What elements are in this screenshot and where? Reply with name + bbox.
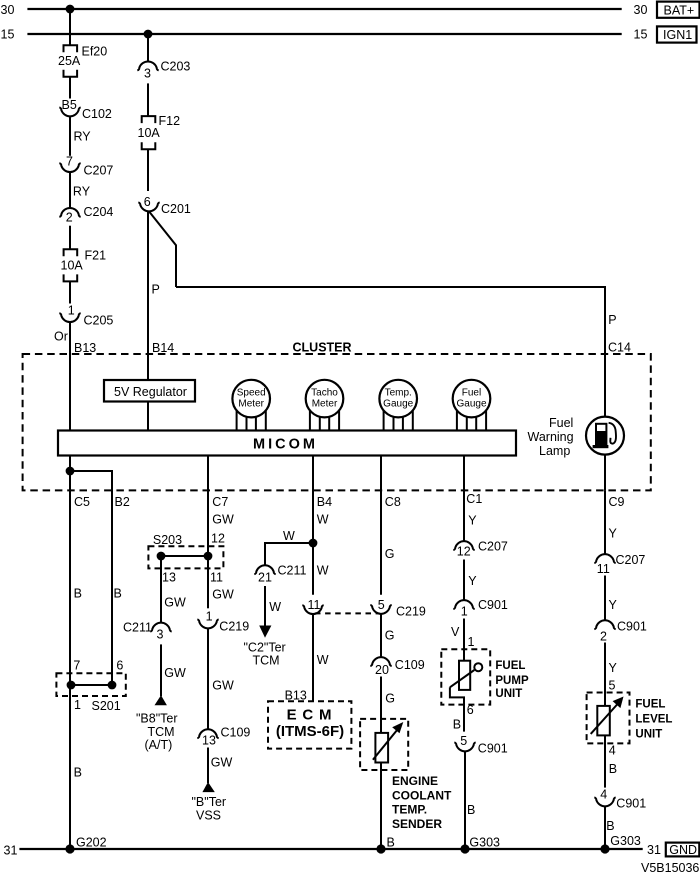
svg-text:G: G xyxy=(385,629,395,643)
svg-text:C901: C901 xyxy=(616,797,646,811)
svg-text:4: 4 xyxy=(609,744,616,758)
svg-text:C207: C207 xyxy=(84,164,114,178)
svg-text:B: B xyxy=(453,717,461,731)
connector C204 pin 2 xyxy=(59,208,80,217)
svg-text:15: 15 xyxy=(634,28,648,42)
svg-text:VSS: VSS xyxy=(196,809,221,823)
svg-text:PUMP: PUMP xyxy=(495,675,529,687)
svg-text:G202: G202 xyxy=(76,835,107,849)
svg-text:1: 1 xyxy=(74,698,81,712)
connector C219 pin 11 xyxy=(302,605,323,614)
svg-text:6: 6 xyxy=(467,703,474,717)
svg-text:Y: Y xyxy=(609,661,618,675)
svg-text:Or: Or xyxy=(54,330,68,344)
wire lamp to cluster edge C9 xyxy=(604,455,606,491)
wire branch to C211 pin 21, colour W xyxy=(265,543,313,565)
svg-text:C201: C201 xyxy=(161,202,191,216)
svg-text:31: 31 xyxy=(4,844,18,858)
wire C5 down to S201, colour B xyxy=(69,471,71,685)
splice S203 dashed box xyxy=(148,546,223,568)
svg-text:E C M: E C M xyxy=(287,707,333,724)
svg-text:GW: GW xyxy=(164,596,186,610)
fuel gauge xyxy=(453,380,491,418)
wire MICOM pin C5 xyxy=(69,456,71,472)
wire bus15 to connector C203 xyxy=(147,34,149,61)
svg-text:10A: 10A xyxy=(138,126,161,140)
svg-text:GW: GW xyxy=(211,756,233,770)
svg-text:W: W xyxy=(317,563,329,577)
fuel pump wiper to pin 6 wire xyxy=(450,687,464,731)
svg-text:V5B15036: V5B15036 xyxy=(641,861,699,875)
svg-text:6: 6 xyxy=(144,195,151,209)
svg-text:1: 1 xyxy=(468,635,475,649)
wire MICOM pin B4, colour W xyxy=(312,456,314,595)
svg-text:C901: C901 xyxy=(478,742,508,756)
svg-text:G: G xyxy=(385,547,395,561)
connector C207 pin 7 xyxy=(59,163,80,172)
connector C102 pin B5 xyxy=(59,108,80,117)
svg-text:11: 11 xyxy=(308,598,321,612)
fuse F12 10A xyxy=(142,116,156,123)
junction dot sender ground xyxy=(376,844,385,853)
connector C219 pin 1 xyxy=(197,620,218,629)
wire C901-2 to fuel level unit pin 5, colour Y xyxy=(604,643,606,706)
ground G202 xyxy=(65,844,74,853)
svg-text:B: B xyxy=(74,587,82,601)
svg-text:Y: Y xyxy=(609,598,618,612)
wire C219 to C109, colour GW xyxy=(207,628,209,729)
wire MICOM pin C1, colour Y xyxy=(463,456,465,542)
svg-text:12: 12 xyxy=(211,532,225,546)
ECM dashed box U3 xyxy=(268,701,351,748)
svg-text:30: 30 xyxy=(1,3,15,17)
connector C219 pin 5 xyxy=(370,605,391,614)
node BAT+ box xyxy=(657,2,700,18)
connector C201 pin 6 xyxy=(138,203,159,212)
wire C211 to B8 terminal, colour GW xyxy=(160,644,162,696)
svg-text:B4: B4 xyxy=(317,495,332,509)
connector C901 pin 2 xyxy=(594,620,615,629)
svg-text:B: B xyxy=(609,762,617,776)
svg-text:6: 6 xyxy=(116,659,123,673)
svg-text:15: 15 xyxy=(1,27,15,41)
connector C207 pin 12 xyxy=(453,541,474,550)
wire C219-5 to C109-20, colour G xyxy=(380,614,382,657)
svg-text:G303: G303 xyxy=(469,835,500,849)
wire feed to C14, colour P xyxy=(176,287,605,417)
svg-text:GND: GND xyxy=(669,843,697,857)
svg-text:Y: Y xyxy=(468,574,477,588)
speed meter gauge xyxy=(232,380,270,418)
wire C211-21 to C2 terminal, colour W xyxy=(264,586,266,626)
svg-text:5: 5 xyxy=(609,679,616,693)
svg-text:Gauge: Gauge xyxy=(456,399,486,410)
svg-text:COOLANT: COOLANT xyxy=(392,789,452,803)
svg-text:25A: 25A xyxy=(58,54,81,68)
svg-text:B: B xyxy=(387,835,395,849)
svg-text:IGN1: IGN1 xyxy=(663,28,692,42)
svg-text:C207: C207 xyxy=(478,539,508,553)
svg-text:S203: S203 xyxy=(153,533,182,547)
svg-text:RY: RY xyxy=(74,129,92,143)
svg-text:TCM: TCM xyxy=(253,653,280,667)
wire S203 to C219, colour GW xyxy=(207,556,209,608)
svg-text:Y: Y xyxy=(609,526,618,540)
svg-text:UNIT: UNIT xyxy=(635,728,662,740)
wire sender to bus 31, colour B xyxy=(380,763,382,850)
svg-text:C7: C7 xyxy=(212,495,228,509)
svg-text:ENGINE: ENGINE xyxy=(392,774,438,788)
splice S201 dashed box xyxy=(56,673,125,696)
wire bus30 to fuse Ef20 xyxy=(69,9,71,45)
svg-text:FUEL: FUEL xyxy=(495,660,525,672)
svg-text:30: 30 xyxy=(634,3,648,17)
terminal arrow C2 TCM xyxy=(259,626,271,638)
svg-text:UNIT: UNIT xyxy=(495,688,522,700)
svg-text:B: B xyxy=(606,819,614,833)
svg-text:4: 4 xyxy=(600,787,607,801)
svg-text:P: P xyxy=(608,313,616,327)
svg-text:C219: C219 xyxy=(396,605,426,619)
wire fuse Ef20 to connector C102 xyxy=(69,77,71,99)
svg-text:Gauge: Gauge xyxy=(383,399,413,410)
svg-text:C211: C211 xyxy=(123,621,152,635)
5V Regulator box U1 xyxy=(104,380,195,402)
wire branch to B2 xyxy=(70,471,112,685)
connector C205 pin 1 xyxy=(59,313,80,322)
svg-text:C207: C207 xyxy=(616,553,646,567)
wire C219-11 to ECM pin B13, colour W xyxy=(312,614,314,701)
junction dot B4 branch xyxy=(309,539,318,548)
svg-text:LEVEL: LEVEL xyxy=(635,714,672,726)
svg-text:B14: B14 xyxy=(152,341,174,355)
node IGN1 box xyxy=(657,26,697,42)
svg-text:31: 31 xyxy=(647,843,661,857)
wire diagonal C201 branch xyxy=(149,211,176,287)
svg-text:Speed: Speed xyxy=(237,388,266,399)
svg-text:C109: C109 xyxy=(221,726,251,740)
svg-text:7: 7 xyxy=(66,155,73,169)
svg-text:5: 5 xyxy=(378,598,385,612)
svg-text:G: G xyxy=(385,692,395,706)
svg-text:Ef20: Ef20 xyxy=(82,44,108,58)
fuel pump unit dashed box xyxy=(441,649,490,704)
svg-text:B2: B2 xyxy=(115,495,130,509)
splice S203 dot left xyxy=(157,552,166,561)
fuel warning lamp L1 xyxy=(586,417,624,455)
svg-text:RY: RY xyxy=(73,185,91,199)
ground dot G303 xyxy=(460,844,469,853)
svg-text:GW: GW xyxy=(212,513,234,527)
svg-text:Lamp: Lamp xyxy=(539,444,570,458)
svg-text:TCM: TCM xyxy=(148,725,175,739)
bus 31 line xyxy=(19,848,642,850)
svg-text:13: 13 xyxy=(162,571,176,585)
splice S203 dot right xyxy=(204,552,213,561)
cluster dashed box xyxy=(23,354,651,490)
svg-text:B: B xyxy=(114,587,122,601)
svg-text:"B8"Ter: "B8"Ter xyxy=(136,711,178,725)
wire C109 to B terminal, colour GW xyxy=(207,748,209,784)
svg-text:C102: C102 xyxy=(82,107,112,121)
svg-text:C205: C205 xyxy=(84,314,114,328)
svg-text:P: P xyxy=(152,283,160,297)
svg-text:CLUSTER: CLUSTER xyxy=(293,341,352,355)
splice S203 wire xyxy=(161,555,208,557)
junction dot on bus 15 xyxy=(144,30,153,39)
svg-text:B: B xyxy=(467,803,475,817)
svg-text:C211: C211 xyxy=(278,563,307,577)
terminal arrow B VSS xyxy=(202,782,214,792)
wire F12 to connector C201 xyxy=(147,149,149,191)
svg-text:Tacho: Tacho xyxy=(311,388,338,399)
svg-text:MICOM: MICOM xyxy=(253,436,318,452)
connector C207 pin 11 xyxy=(594,554,615,563)
svg-text:Fuel: Fuel xyxy=(462,388,481,399)
wire F21 to connector C205 xyxy=(69,281,71,303)
svg-text:C1: C1 xyxy=(466,492,482,506)
svg-text:1: 1 xyxy=(461,604,468,618)
fuel level rheostat R3 xyxy=(597,706,610,736)
svg-text:"C2"Ter: "C2"Ter xyxy=(244,640,286,654)
svg-text:GW: GW xyxy=(164,666,186,680)
svg-text:Meter: Meter xyxy=(312,399,338,410)
svg-text:C8: C8 xyxy=(385,495,401,509)
svg-text:1: 1 xyxy=(206,609,213,623)
svg-text:W: W xyxy=(317,513,329,527)
wire MICOM pin C7, colour GW xyxy=(207,456,209,557)
wire cluster pin C9 to C207-11, colour Y xyxy=(604,490,606,554)
wire C203 to fuse F12 xyxy=(147,83,149,116)
wire MICOM pin C8, colour G xyxy=(380,456,382,595)
svg-text:SENDER: SENDER xyxy=(392,817,442,831)
svg-text:Warning: Warning xyxy=(528,430,574,444)
svg-text:5: 5 xyxy=(460,734,467,748)
splice S201 wire xyxy=(71,684,112,686)
svg-text:20: 20 xyxy=(375,663,389,677)
svg-text:C14: C14 xyxy=(608,340,631,354)
connector C109 pin 13 xyxy=(197,729,218,738)
fuel pump rheostat R2 xyxy=(459,661,470,690)
tacho meter gauge xyxy=(306,380,344,418)
svg-text:C901: C901 xyxy=(478,598,508,612)
ground dot G303 right xyxy=(600,844,609,853)
wire 5V Regulator to MICOM xyxy=(147,402,149,431)
svg-text:Fuel: Fuel xyxy=(549,416,573,430)
wire C204 to fuse F21 xyxy=(69,226,71,250)
connector C219 dashed link xyxy=(315,612,380,614)
engine coolant temp sender dashed box xyxy=(360,719,408,770)
svg-text:11: 11 xyxy=(597,562,610,576)
wire C201 to 5V Regulator, colour P, pin B14 xyxy=(147,211,149,380)
svg-text:Temp.: Temp. xyxy=(385,388,412,399)
svg-text:C204: C204 xyxy=(84,205,114,219)
splice S201 dot left xyxy=(67,681,76,690)
svg-text:C5: C5 xyxy=(74,495,90,509)
wire C207-12 to C901-1, colour Y xyxy=(463,560,465,601)
svg-text:21: 21 xyxy=(258,570,272,584)
svg-text:FUEL: FUEL xyxy=(635,699,665,711)
connector C109 pin 20 xyxy=(370,657,391,666)
bus 30 line xyxy=(27,8,621,10)
svg-text:F12: F12 xyxy=(159,114,181,128)
wire C901-5 to G303, colour B xyxy=(464,751,466,849)
node GND box xyxy=(666,843,700,857)
wire C109-20 to sender, colour G xyxy=(380,677,382,734)
wire C102 to C207, colour RY xyxy=(69,116,71,155)
wire C207-11 to C901-2, colour Y xyxy=(604,576,606,621)
svg-text:C901: C901 xyxy=(617,620,647,634)
svg-text:Meter: Meter xyxy=(238,399,264,410)
svg-text:F21: F21 xyxy=(85,249,107,263)
wire C207 to C204, colour RY xyxy=(69,172,71,208)
svg-text:5V Regulator: 5V Regulator xyxy=(114,385,187,399)
wire C205 to MICOM pin B13, colour Or xyxy=(69,322,71,430)
svg-text:13: 13 xyxy=(202,733,216,747)
svg-text:BAT+: BAT+ xyxy=(664,3,695,17)
bus 15 line xyxy=(27,33,621,35)
lamp fuel-pump icon xyxy=(595,423,607,446)
svg-text:(A/T): (A/T) xyxy=(145,738,173,752)
sender variable resistor R1 xyxy=(375,733,388,763)
svg-text:C203: C203 xyxy=(161,60,191,74)
connector C901 pin 4 xyxy=(594,798,615,807)
svg-text:S201: S201 xyxy=(92,699,121,713)
junction dot C5/B2 xyxy=(66,467,75,476)
connector C211 pin 21 xyxy=(254,565,275,574)
svg-text:12: 12 xyxy=(457,544,471,558)
svg-text:(ITMS-6F): (ITMS-6F) xyxy=(276,723,344,740)
temp gauge xyxy=(379,380,417,418)
svg-text:3: 3 xyxy=(144,67,151,81)
svg-text:C109: C109 xyxy=(395,658,425,672)
svg-text:Y: Y xyxy=(468,514,477,528)
fuse Ef20 25A xyxy=(64,45,78,52)
terminal arrow B8 TCM xyxy=(155,695,167,705)
MICOM bar U2 xyxy=(58,431,516,456)
svg-text:G303: G303 xyxy=(610,834,641,848)
svg-text:V: V xyxy=(451,625,460,639)
splice S201 dot right xyxy=(108,681,117,690)
svg-text:C9: C9 xyxy=(609,495,625,509)
svg-text:10A: 10A xyxy=(61,258,84,272)
wire S201 to G202, colour B xyxy=(69,685,71,849)
svg-text:TEMP.: TEMP. xyxy=(392,803,427,817)
svg-text:B: B xyxy=(74,766,82,780)
svg-text:W: W xyxy=(317,653,329,667)
connector C901 pin 5 xyxy=(454,743,475,752)
fuel level unit dashed box xyxy=(587,693,630,744)
svg-text:2: 2 xyxy=(66,210,73,224)
svg-text:11: 11 xyxy=(210,571,223,585)
svg-text:GW: GW xyxy=(212,678,234,692)
svg-text:3: 3 xyxy=(157,628,164,642)
svg-text:1: 1 xyxy=(68,304,75,318)
wire fuel level to C901-4, colour B xyxy=(604,735,606,787)
svg-text:"B"Ter: "B"Ter xyxy=(192,795,227,809)
junction dot on bus 30 xyxy=(66,5,75,14)
svg-text:2: 2 xyxy=(600,630,607,644)
wire C901-1 to fuel pump pin 1, colour V xyxy=(463,619,465,661)
fuse F21 10A xyxy=(64,249,78,256)
svg-text:B5: B5 xyxy=(62,98,77,112)
svg-text:7: 7 xyxy=(73,659,80,673)
connector C901 pin 1 xyxy=(453,600,474,609)
svg-text:GW: GW xyxy=(212,588,234,602)
svg-text:B13: B13 xyxy=(74,341,96,355)
connector C211 pin 3 xyxy=(150,623,171,632)
svg-text:W: W xyxy=(283,529,295,543)
wire S203 to C211, colour GW xyxy=(160,556,162,623)
wire C901-4 to G303, colour B xyxy=(604,806,606,849)
svg-text:C219: C219 xyxy=(219,620,249,634)
connector C203 pin 3 xyxy=(137,61,158,70)
svg-text:W: W xyxy=(269,600,281,614)
